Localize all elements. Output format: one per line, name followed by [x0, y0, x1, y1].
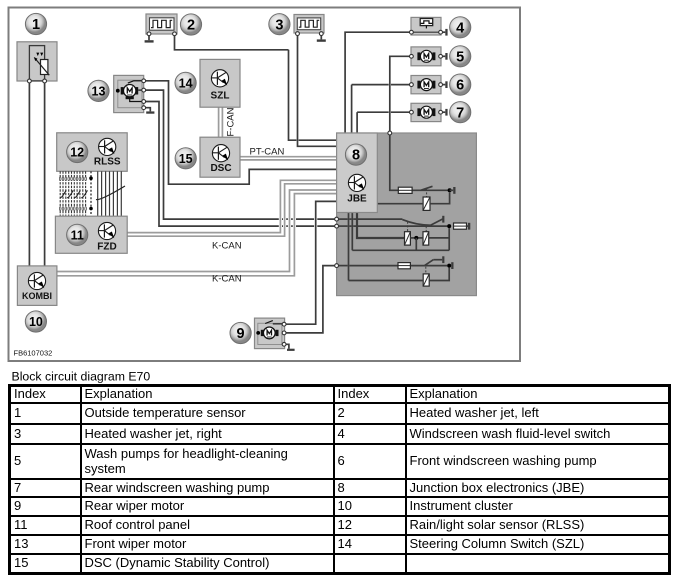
svg-text:K-CAN: K-CAN: [212, 241, 242, 252]
pin circles of component 1: [28, 79, 32, 83]
JBE label box: [337, 133, 378, 213]
JBE relay row 2: actuator dashes: [408, 222, 427, 232]
badge 7: [450, 102, 471, 123]
svg-text:12: 12: [70, 146, 84, 160]
wire: washer jet right to JBE: [298, 35, 338, 146]
JBE relay row 2: changeover arc: [402, 220, 430, 226]
wash pump for headlight cleaning box (component 5): [411, 47, 441, 66]
svg-text:5: 5: [456, 49, 464, 65]
svg-text:K-CAN: K-CAN: [212, 274, 242, 285]
JBE relay row 2: fuse to terminal: [454, 223, 471, 230]
DSC box (component 15): [200, 137, 240, 177]
svg-text:RLSS: RLSS: [94, 157, 121, 168]
JBE relay row 3: actuator dash: [425, 267, 427, 274]
JBE relay row 2: arm terminal: [442, 216, 444, 223]
pin circles of component 2: [147, 32, 151, 36]
JBE relay row 1: coil: [423, 197, 430, 210]
K-CAN bus KOMBI to JBE: [57, 190, 338, 276]
JBE relay row 3: fuse: [398, 263, 410, 269]
svg-text:3: 3: [275, 17, 283, 33]
JBE relay row 1: coil drive from electronics: [377, 203, 423, 205]
JBE edge pin circles: [335, 131, 392, 267]
JBE relay row 2: bottom return path: [352, 228, 449, 250]
heated washer jet right box (component 3): [294, 15, 324, 34]
JBE relay row 1: junction dot: [448, 188, 452, 192]
front wiper motor box (component 13): [114, 75, 144, 112]
svg-text:13: 13: [92, 85, 106, 99]
svg-text:F-CAN: F-CAN: [226, 107, 237, 136]
badge 4: [450, 17, 471, 38]
JBE relay row 1: coil return to dot: [430, 192, 450, 204]
roof control panel box FZD (component 11): [55, 216, 127, 253]
pin circles of component 13: [142, 79, 146, 83]
JBE relay row 2: inter-coil link with dot: [410, 236, 423, 240]
svg-text:6: 6: [456, 78, 464, 94]
ground of washer jet left: [145, 35, 154, 42]
F-CAN bus SZL to DSC: [219, 107, 223, 137]
badge 14: [175, 72, 196, 93]
svg-text:11: 11: [71, 229, 84, 243]
wire: rear washing pump to JBE: [357, 112, 410, 133]
svg-text:10: 10: [29, 315, 43, 329]
JBE relay row 1: switch arm: [421, 186, 433, 190]
ground of washer jet right: [317, 35, 326, 41]
wire: temp sensor to KOMBI, right lead: [44, 83, 46, 266]
ground of rear wiper motor: [286, 344, 295, 351]
badge 11: [67, 224, 88, 245]
JBE internal: electronics output wire a: [348, 212, 350, 281]
ribbon harness solid bundle: [98, 171, 122, 216]
JBE relay row 2: coil left: [405, 232, 411, 245]
JBE relay row 3: junction dot and terminal: [447, 262, 453, 269]
wire: front wiper motor pin1 to JBE (routed around DSC): [146, 81, 338, 184]
JBE relay row 1: main contact line: [412, 189, 448, 191]
badge 8: [345, 144, 366, 165]
JBE relay row 1: actuator dash: [426, 189, 428, 197]
svg-text:JBE: JBE: [347, 194, 367, 205]
svg-text:8: 8: [352, 148, 360, 164]
ground of front wiper motor: [146, 108, 155, 114]
svg-text:4: 4: [456, 20, 464, 36]
svg-text:PT-CAN: PT-CAN: [250, 147, 285, 158]
JBE relay row 3: main line: [339, 265, 448, 267]
wire: washer jet left to JBE: [175, 35, 338, 140]
wire: rear wiper motor pin1 to JBE: [286, 201, 338, 324]
heated washer jet left box (component 2): [146, 14, 177, 34]
pins and terminal of component 4: [410, 30, 414, 34]
rear windscreen washing pump box (component 7): [411, 103, 441, 121]
svg-text:FB6107032: FB6107032: [14, 349, 53, 358]
JBE relay row 2: coil right: [423, 232, 429, 245]
pins and terminal of component 7: [410, 110, 414, 114]
JBE relay row 2: input wire b: [339, 225, 448, 227]
wire: temp sensor to KOMBI, left lead: [28, 83, 30, 266]
svg-text:DSC: DSC: [210, 163, 231, 174]
K-CAN bus FZD to JBE: [127, 180, 337, 236]
svg-text:Block circuit diagram E70: Block circuit diagram E70: [12, 370, 151, 384]
svg-text:7: 7: [456, 105, 464, 121]
ribbon harness RLSS to FZD, dotted bundle: [60, 171, 85, 216]
pins and terminal of component 5: [410, 54, 414, 58]
svg-text:KOMBI: KOMBI: [22, 291, 52, 301]
pins and terminal of component 6: [410, 83, 414, 87]
pin circles of component 3: [296, 32, 300, 36]
badge 9: [230, 322, 251, 343]
JBE relay row 1: output terminal: [450, 187, 456, 194]
svg-text:9: 9: [237, 326, 245, 342]
JBE relay row 3: coil return to dot: [429, 268, 449, 281]
badge 13: [88, 80, 109, 101]
badge 5: [450, 46, 471, 67]
wire: fluid level switch to JBE: [345, 32, 410, 133]
wire: front wiper motor pin2 to JBE: [146, 90, 335, 219]
JBE relay row 2: switch arm: [430, 219, 442, 225]
badge 10: [25, 311, 46, 332]
badge 3: [269, 14, 290, 35]
pin circles of component 9: [282, 322, 286, 326]
svg-text:SZL: SZL: [211, 91, 230, 102]
windscreen wash fluid-level switch box (component 4): [411, 17, 441, 35]
badge 1: [25, 13, 46, 34]
steering column switch box SZL (component 14): [200, 59, 240, 107]
JBE relay row 1: fuse: [398, 187, 412, 193]
rear wiper motor box (component 9): [255, 318, 285, 349]
svg-text:15: 15: [179, 152, 193, 166]
instrument cluster box KOMBI (component 10): [17, 266, 57, 306]
wire: front wiper motor pin3 to JBE: [146, 102, 335, 227]
wire: rear wiper motor pin2 to JBE: [286, 266, 335, 333]
badge 2: [180, 14, 201, 35]
rain/light solar sensor box RLSS (component 12): [57, 133, 128, 172]
JBE internal: electronics output wire b: [351, 212, 353, 250]
badge 12: [67, 141, 88, 162]
wire: headlight wash pump to JBE top pin: [390, 56, 410, 131]
junction box electronics JBE main box (component 8): [337, 133, 477, 296]
JBE internal: electronics output wire c: [357, 212, 405, 238]
svg-text:1: 1: [32, 17, 40, 33]
ribbon dashed sense line: [89, 171, 93, 216]
diagram frame: [9, 8, 521, 362]
JBE relay row 3: coil: [423, 274, 429, 286]
JBE ecu symbol and label: [347, 174, 367, 204]
JBE relay row 3: coil drive from comp4 wire: [349, 280, 424, 282]
front windscreen washing pump box (component 6): [411, 76, 441, 94]
svg-text:14: 14: [179, 77, 193, 91]
svg-text:2: 2: [187, 18, 195, 34]
ribbon slash marks: [60, 186, 125, 200]
outside temperature sensor box (component 1): [17, 42, 57, 81]
JBE relay row 2: junction dot on wire b: [447, 224, 451, 228]
JBE relay row 3: switch arm and upper terminal: [425, 256, 445, 265]
JBE relay row 1: supply from pin: [390, 135, 399, 190]
badge 6: [450, 74, 471, 95]
JBE relay row 2: input wire a: [339, 218, 403, 220]
PT-CAN bus DSC to JBE: [240, 157, 338, 160]
svg-text:FZD: FZD: [97, 242, 116, 253]
wire: front washing pump to JBE: [352, 85, 410, 134]
badge 15: [175, 148, 196, 169]
JBE relay row 2: coil right to dot riser: [429, 237, 450, 239]
